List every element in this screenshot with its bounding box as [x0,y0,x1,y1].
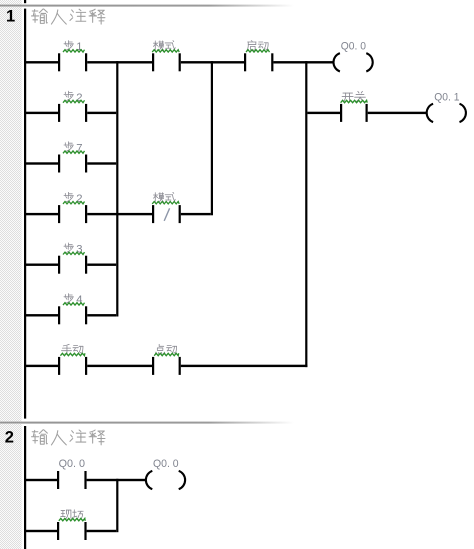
label 模式 [152,192,179,204]
svg-text:2: 2 [5,428,14,446]
network 1 number [6,8,15,26]
wire [26,112,58,114]
contact 步2 [58,205,87,223]
label 步3 [63,243,85,256]
label 步2 [63,192,85,205]
contact 步2 [58,104,87,122]
wire [87,112,116,114]
svg-text:1: 1 [6,8,15,26]
network 1 gutter [0,7,22,422]
contact Q0.0 [57,471,87,489]
wire [87,162,116,164]
wire [87,530,117,532]
label 现场 [59,510,85,521]
wire [26,530,57,532]
label 步7 [63,142,85,155]
svg-text:Q0. 0: Q0. 0 [59,458,85,470]
wire [307,112,340,114]
svg-text:Q0. 0: Q0. 0 [153,458,179,470]
contact 模式 [152,53,181,71]
wire [273,61,333,63]
contact 启动 [244,53,273,71]
label 步1 [63,40,85,53]
wire [181,213,211,215]
contact 步3 [58,256,87,274]
network 2 gutter [0,424,22,549]
svg-text:Q0. 1: Q0. 1 [434,91,459,103]
network separator 1 [0,5,474,7]
wire [26,61,58,63]
network separator 2 [0,422,474,424]
wire [26,162,58,164]
label 模式 [152,40,179,52]
wire [26,264,58,266]
label 点动 [154,344,179,355]
contact 步1 [58,53,87,71]
wire [26,365,58,367]
wire [87,365,152,367]
label 步2 [63,91,85,104]
previous network gutter stub [0,0,22,5]
contact 步4 [58,306,87,324]
network 1 comment 输入注释 [32,9,106,24]
contact 步7 [58,155,87,173]
coil Q0.0 [333,53,372,71]
branch column (network 2) [116,479,118,532]
wire [368,112,427,114]
contact 点动 [152,357,181,375]
wire [87,61,152,63]
contact 手动 [58,357,87,375]
label 开关 [341,91,368,102]
wire [87,479,146,481]
wire [181,365,308,367]
label 步4 [63,293,85,306]
label 手动 [60,344,85,355]
label Q0.0 coil [153,458,179,470]
wire [87,213,152,215]
contact 模式 / (NC) [152,205,181,223]
branch column (steps OR) [116,61,118,316]
contact 现场 [57,522,87,540]
wire [26,213,58,215]
trunk column to coil [305,61,307,367]
wire [26,479,57,481]
label Q0.0 [341,41,366,53]
coil Q0.1 [427,104,466,122]
wire [26,314,58,316]
label 启动 [246,40,270,52]
network 2 comment 输入注释 [32,430,106,445]
label Q0.1 [434,91,459,103]
branch column (mode OR) [211,61,213,215]
left power rail (network 2) [24,426,26,549]
coil Q0.0 (network 2) [146,471,185,489]
previous network rail stub [24,0,26,3]
left power rail (network 1) [24,9,26,419]
label Q0.0 contact [59,458,85,470]
wire [87,314,116,316]
svg-text:Q0. 0: Q0. 0 [341,41,366,53]
contact 开关 [340,104,368,122]
wire [87,264,116,266]
network 2 number [5,428,14,446]
wire [181,61,244,63]
